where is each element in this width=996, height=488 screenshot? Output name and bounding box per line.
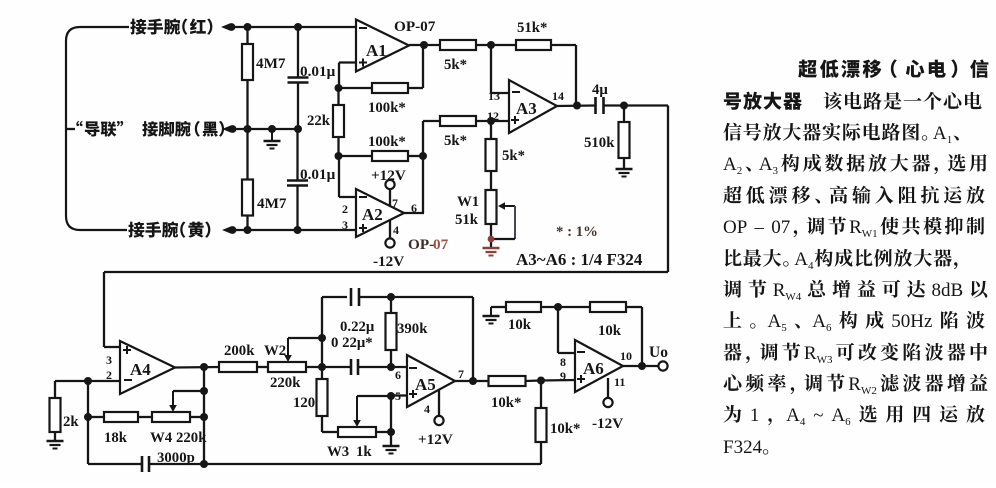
svg-text:5k*: 5k* — [502, 148, 525, 164]
svg-text:3: 3 — [342, 218, 348, 232]
svg-text:A6: A6 — [583, 359, 604, 378]
svg-text:A: A — [723, 154, 737, 175]
svg-text:3: 3 — [773, 165, 779, 177]
svg-text:A2: A2 — [362, 205, 383, 224]
svg-text:07: 07 — [433, 236, 449, 253]
svg-text:18k: 18k — [104, 430, 128, 446]
svg-text:Uo: Uo — [649, 344, 668, 361]
svg-text:W1: W1 — [862, 228, 878, 240]
svg-text:10k: 10k — [508, 317, 532, 333]
svg-text:-12V: -12V — [592, 415, 623, 432]
svg-text:10k: 10k — [598, 323, 622, 339]
svg-text:4μ: 4μ — [592, 82, 608, 98]
svg-text:6: 6 — [411, 201, 417, 215]
svg-text:4: 4 — [393, 223, 399, 237]
svg-text:W3: W3 — [817, 354, 833, 366]
svg-text:2: 2 — [342, 202, 348, 216]
svg-text:120: 120 — [293, 395, 315, 411]
svg-text:22k: 22k — [307, 113, 331, 129]
svg-text:OP: OP — [723, 217, 747, 238]
svg-text:+12V: +12V — [418, 431, 453, 448]
svg-text:12: 12 — [487, 109, 499, 123]
svg-text:4M7: 4M7 — [257, 195, 287, 212]
svg-text:10k*: 10k* — [550, 421, 580, 437]
svg-text:A: A — [759, 154, 773, 175]
svg-text:100k*: 100k* — [368, 134, 406, 150]
svg-text:5k*: 5k* — [444, 133, 467, 149]
svg-text:3: 3 — [106, 353, 112, 367]
svg-text:R: R — [849, 217, 862, 238]
svg-text:* : 1%: * : 1% — [556, 224, 598, 240]
svg-text:0.01μ: 0.01μ — [300, 166, 336, 183]
svg-text:7: 7 — [458, 367, 464, 381]
svg-text:A: A — [831, 405, 845, 426]
svg-text:51k*: 51k* — [517, 20, 547, 36]
svg-text:8dB: 8dB — [932, 280, 964, 301]
svg-text:F324: F324 — [723, 437, 763, 458]
svg-text:6: 6 — [395, 368, 401, 382]
svg-text:11: 11 — [614, 375, 625, 389]
svg-text:3000p: 3000p — [157, 450, 195, 466]
svg-text:4: 4 — [800, 416, 806, 428]
svg-text:A5: A5 — [415, 375, 436, 394]
svg-text:A1: A1 — [366, 41, 387, 60]
svg-text:A: A — [812, 311, 826, 332]
svg-text:0 22μ*: 0 22μ* — [331, 335, 373, 351]
svg-text:+12V: +12V — [371, 167, 406, 184]
svg-text:5: 5 — [781, 322, 787, 334]
svg-text:OP-07: OP-07 — [394, 18, 436, 35]
svg-text:50Hz: 50Hz — [891, 311, 932, 332]
svg-text:13: 13 — [488, 89, 500, 103]
svg-text:A3~A6 : 1/4 F324: A3~A6 : 1/4 F324 — [516, 250, 643, 269]
svg-text:9: 9 — [560, 369, 566, 383]
svg-text:W1: W1 — [457, 194, 479, 210]
svg-text:A3: A3 — [516, 99, 537, 118]
svg-text:~: ~ — [813, 405, 823, 426]
svg-text:6: 6 — [845, 416, 851, 428]
svg-text:390k: 390k — [397, 321, 428, 337]
svg-text:W3: W3 — [327, 444, 349, 460]
svg-text:1: 1 — [750, 405, 760, 426]
svg-text:R: R — [773, 280, 786, 301]
svg-text:–: – — [750, 217, 769, 238]
svg-text:A: A — [786, 405, 800, 426]
svg-text:R: R — [804, 343, 817, 364]
svg-text:4: 4 — [808, 260, 814, 272]
svg-text:A: A — [794, 249, 808, 270]
svg-text:W2: W2 — [264, 343, 286, 359]
svg-text:200k: 200k — [224, 343, 255, 359]
svg-text:R: R — [848, 374, 861, 395]
svg-text:8: 8 — [560, 355, 566, 369]
svg-text:51k: 51k — [455, 212, 479, 228]
svg-text:220k: 220k — [176, 430, 207, 446]
svg-text:-12V: -12V — [373, 253, 404, 270]
svg-text:0.22μ: 0.22μ — [340, 319, 375, 335]
svg-text:10: 10 — [620, 349, 632, 363]
svg-text:0.01μ: 0.01μ — [300, 63, 336, 80]
svg-text:2k: 2k — [63, 414, 79, 430]
svg-text:W2: W2 — [861, 385, 877, 397]
svg-text:A: A — [768, 311, 782, 332]
svg-text:14: 14 — [552, 89, 564, 103]
svg-text:10k*: 10k* — [491, 395, 521, 411]
svg-text:07: 07 — [771, 217, 790, 238]
svg-text:5: 5 — [395, 389, 401, 403]
svg-text:W4: W4 — [150, 430, 173, 446]
svg-text:4M7: 4M7 — [256, 55, 286, 72]
svg-text:6: 6 — [826, 322, 832, 334]
svg-text:7: 7 — [392, 196, 398, 210]
svg-text:5k*: 5k* — [444, 57, 467, 73]
svg-text:W4: W4 — [785, 291, 801, 303]
svg-text:4: 4 — [424, 402, 430, 416]
svg-text:100k*: 100k* — [368, 100, 406, 116]
svg-text:OP-: OP- — [408, 236, 434, 253]
svg-text:510k: 510k — [584, 135, 615, 151]
svg-text:220k: 220k — [270, 375, 301, 391]
svg-text:A: A — [933, 123, 947, 144]
svg-text:1: 1 — [947, 134, 953, 146]
svg-text:2: 2 — [737, 165, 743, 177]
svg-text:1k: 1k — [356, 444, 372, 460]
svg-text:A4: A4 — [130, 360, 151, 379]
